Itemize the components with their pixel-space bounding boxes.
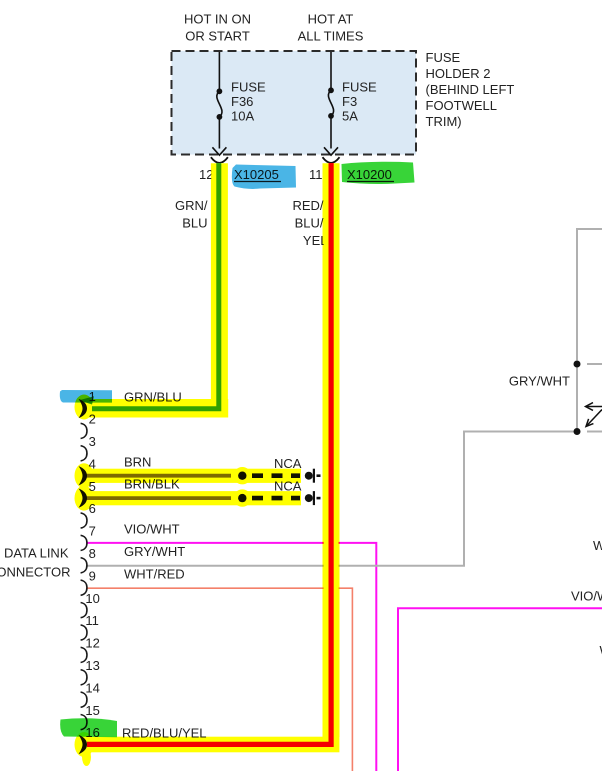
wire GRY/WHT from pin 8 to switch [86, 432, 574, 566]
svg-text:10A: 10A [231, 109, 254, 124]
connector pin contact 12 [81, 647, 87, 662]
svg-text:F3: F3 [342, 94, 357, 109]
svg-text:15: 15 [85, 703, 99, 718]
NCA dashed wire BRN/BLK pin 5 [252, 496, 300, 501]
splice dot BRN pin 4 [238, 472, 246, 480]
svg-text:BRN: BRN [124, 455, 151, 470]
label FUSE F36 10A [231, 80, 266, 124]
connector pin contact 8 [81, 558, 87, 573]
wire VIO/WHT from pin 7 [86, 543, 376, 771]
connector pin contact 16 (filled) [79, 735, 87, 754]
highlight tail below pin 16 [82, 748, 91, 766]
termination dot BRN pin 4 [305, 472, 313, 480]
label GRN/BLU wire [175, 198, 208, 231]
switch contact upper [574, 361, 581, 368]
termination bar BRN/BLK pin 5 [313, 491, 315, 505]
svg-text:CONNECTOR: CONNECTOR [0, 565, 71, 580]
wire GRN/BLU arrow into pin 1 [79, 396, 94, 404]
connector socket at pin 11 [323, 157, 340, 163]
svg-text:11: 11 [309, 167, 323, 182]
svg-text:F36: F36 [231, 94, 253, 109]
wire BRN/BLK pin 5 [86, 496, 231, 500]
wire between switch contacts [576, 368, 578, 429]
termination bar BRN pin 4 [313, 469, 315, 483]
svg-text:BLU/: BLU/ [295, 216, 324, 231]
svg-text:7: 7 [89, 524, 96, 539]
connector pin contact 9 [81, 580, 87, 595]
connector pin contact 11 [81, 625, 87, 640]
svg-text:3: 3 [89, 434, 96, 449]
wire GRN/BLU core [92, 163, 219, 409]
switch actuation arrow [586, 403, 602, 411]
highlight blob pin 16 [75, 732, 94, 757]
svg-text:TRIM): TRIM) [426, 114, 462, 129]
label RED/BLU/YEL wire [292, 198, 327, 248]
termination stub BRN/BLK pin 5 [317, 497, 321, 500]
svg-text:8: 8 [89, 546, 96, 561]
svg-text:10: 10 [85, 591, 99, 606]
svg-text:11: 11 [85, 613, 99, 628]
svg-text:FUSE: FUSE [342, 80, 377, 95]
switch blade arrow [586, 410, 602, 427]
wire segment right of lower contact [587, 431, 602, 433]
highlight yellow GRN/BLU wire [211, 163, 228, 399]
fuse F36 10A [212, 52, 226, 155]
svg-text:HOLDER 2: HOLDER 2 [426, 66, 491, 81]
highlight green over pin 16 [60, 718, 117, 737]
highlight ring splice pin 4 [236, 469, 249, 482]
termination dot BRN/BLK pin 5 [305, 494, 313, 502]
node X10200 [347, 167, 394, 182]
wire VIO/WHT lower right [398, 608, 602, 771]
connector pin contact 10 [81, 603, 87, 618]
wire BRN pin 4 [86, 474, 231, 478]
svg-text:HOT AT: HOT AT [308, 12, 354, 27]
highlight blue over pin 1 [60, 390, 112, 403]
svg-text:GRY/WHT: GRY/WHT [124, 544, 185, 559]
connector pin contact 13 [81, 670, 87, 685]
fuse F3 5A [324, 52, 338, 155]
switch contact lower [574, 428, 581, 435]
svg-text:OR START: OR START [185, 29, 250, 44]
highlight blob pin 4 [75, 463, 94, 488]
svg-text:ALL TIMES: ALL TIMES [298, 29, 364, 44]
highlight green over X10200 [342, 162, 415, 184]
svg-text:HOT IN ON: HOT IN ON [184, 12, 251, 27]
highlight blob pin 1 [75, 395, 94, 420]
NCA dashed wire BRN pin 4 [252, 473, 300, 478]
connector pin contact 5 (filled) [79, 489, 87, 508]
svg-text:VIO/WH: VIO/WH [571, 589, 602, 604]
highlight ring splice pin 5 [236, 492, 249, 505]
connector pin contact 14 [81, 692, 87, 707]
connector pin contact 4 (filled) [79, 466, 87, 485]
splice dot BRN/BLK pin 5 [238, 494, 246, 502]
highlight blue over X10205 [232, 165, 296, 189]
svg-text:DATA LINK: DATA LINK [4, 546, 69, 561]
svg-text:FUSE: FUSE [426, 50, 461, 65]
label HOT IN ON / OR START [184, 12, 251, 44]
svg-text:5A: 5A [342, 109, 358, 124]
svg-text:12: 12 [85, 636, 99, 651]
label FUSE F3 5A [342, 80, 377, 124]
node X10205 [234, 167, 281, 182]
connector pin contact 1 (filled) [79, 399, 87, 418]
label HOT AT / ALL TIMES [298, 12, 364, 44]
svg-text:GRY/WHT: GRY/WHT [509, 374, 570, 389]
termination stub BRN pin 4 [317, 474, 321, 477]
svg-text:9: 9 [89, 568, 96, 583]
wire RED/BLU/YEL core [87, 163, 331, 744]
wire halo GRN/BLU [86, 163, 219, 409]
highlight blob pin 5 [75, 486, 94, 511]
connector socket at pin 12 [211, 157, 228, 163]
connector pin contact 7 [81, 535, 87, 550]
connector pin contact 2 [81, 423, 87, 438]
wire segment right of upper contact [587, 363, 602, 365]
wire GRY/WHT upper right [577, 229, 602, 360]
wire halo RED/BLU/YEL [86, 163, 331, 744]
svg-text:BLU: BLU [182, 216, 207, 231]
svg-text:FUSE: FUSE [231, 80, 266, 95]
svg-text:14: 14 [85, 680, 99, 695]
connector pin contact 6 [81, 513, 87, 528]
svg-text:(BEHIND LEFT: (BEHIND LEFT [426, 82, 515, 97]
svg-text:RED/: RED/ [292, 198, 323, 213]
svg-text:GRN/: GRN/ [175, 198, 208, 213]
svg-text:WHT/RED: WHT/RED [124, 567, 185, 582]
connector pin contact 15 [81, 715, 87, 730]
svg-text:13: 13 [85, 658, 99, 673]
label FUSE HOLDER 2 (BEHIND LEFT FOOTWELL TRIM) [426, 50, 515, 129]
svg-text:WHT: WHT [593, 538, 602, 553]
svg-text:FOOTWELL: FOOTWELL [426, 98, 498, 113]
wire WHT/RED from pin 9 [86, 588, 352, 771]
svg-text:VIO/WHT: VIO/WHT [124, 522, 180, 537]
fuse holder 2 box [172, 51, 417, 155]
highlight yellow BRN wires [78, 469, 301, 483]
connector pin contact 3 [81, 446, 87, 461]
highlight yellow RED/BLU/YEL wire [323, 163, 340, 737]
label DATA LINK CONNECTOR [0, 546, 71, 580]
